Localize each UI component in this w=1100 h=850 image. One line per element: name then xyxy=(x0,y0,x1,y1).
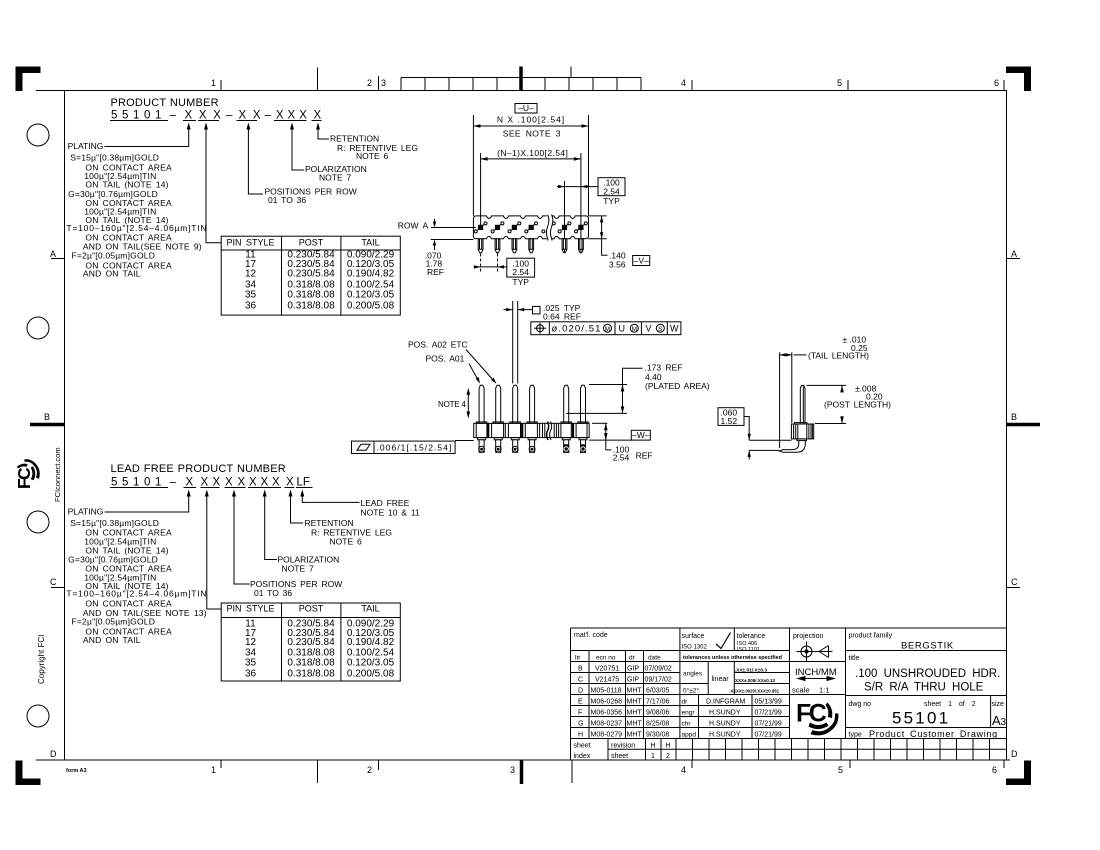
body standoffs xyxy=(478,438,587,440)
top border line full width xyxy=(36,90,1007,92)
side tail xyxy=(779,441,805,453)
svg-text:0.25: 0.25 xyxy=(851,343,868,353)
svg-text:T=100–160µ"[2.54–4.06µm]TIN: T=100–160µ"[2.54–4.06µm]TIN xyxy=(66,589,207,599)
svg-text:index: index xyxy=(574,753,591,760)
registration circle 4 xyxy=(27,705,49,727)
svg-text:Product Customer Drawing: Product Customer Drawing xyxy=(869,729,998,739)
svg-text:NOTE 10 & 11: NOTE 10 & 11 xyxy=(361,508,420,518)
svg-text:36: 36 xyxy=(245,300,257,311)
bottom fold mark left xyxy=(317,760,319,783)
svg-text:INCH/MM: INCH/MM xyxy=(795,667,837,678)
svg-text:H: H xyxy=(666,743,671,750)
svg-text:PLATING: PLATING xyxy=(68,141,104,151)
svg-text:6: 6 xyxy=(994,78,999,88)
svg-text:form A3: form A3 xyxy=(66,768,87,774)
svg-text:9/08/06: 9/08/06 xyxy=(646,710,669,717)
svg-text:LEAD FREE PRODUCT NUMBER: LEAD FREE PRODUCT NUMBER xyxy=(111,463,286,475)
svg-text:AND ON TAIL: AND ON TAIL xyxy=(83,269,141,279)
svg-text:ON CONTACT AREA: ON CONTACT AREA xyxy=(85,598,172,608)
svg-text:2: 2 xyxy=(367,765,372,775)
svg-text:.XXXX±.0020/.XXX±0.051: .XXXX±.0020/.XXX±0.051 xyxy=(729,689,779,694)
lf arrow positions xyxy=(232,490,250,585)
svg-text:0.190/4.82: 0.190/4.82 xyxy=(347,637,395,648)
sheet index rows xyxy=(574,743,671,761)
.140 dim xyxy=(589,216,608,255)
svg-text:1: 1 xyxy=(211,765,216,775)
svg-text:X: X xyxy=(213,477,221,489)
svg-text:9/30/08: 9/30/08 xyxy=(646,732,669,739)
svg-text:D.INFGRAM: D.INFGRAM xyxy=(706,699,745,706)
revision rows xyxy=(578,666,672,739)
svg-text:G: G xyxy=(578,721,583,728)
svg-text:(PLATED AREA): (PLATED AREA) xyxy=(645,381,710,391)
svg-text:.100 UNSHROUDED HDR.: .100 UNSHROUDED HDR. xyxy=(855,668,1000,680)
top view body right part xyxy=(552,216,589,239)
svg-text:1:1: 1:1 xyxy=(819,686,829,695)
svg-text:XX: XX xyxy=(239,110,268,122)
svg-text:PIN STYLE: PIN STYLE xyxy=(226,238,274,248)
svg-text:12: 12 xyxy=(245,269,257,280)
svg-text:0.190/4.82: 0.190/4.82 xyxy=(347,269,395,280)
svg-text:3.56: 3.56 xyxy=(609,260,626,270)
svg-text:XXX: XXX xyxy=(276,110,311,122)
corner crop mark bottom-left xyxy=(16,779,41,786)
svg-text:N X .100[2.54]: N X .100[2.54] xyxy=(497,115,565,125)
svg-text:8/25/08: 8/25/08 xyxy=(646,721,669,728)
svg-text:4: 4 xyxy=(681,765,686,775)
svg-text:X: X xyxy=(249,477,257,489)
front view break xyxy=(547,422,549,441)
svg-text:W: W xyxy=(670,324,679,334)
front view body xyxy=(474,423,590,437)
svg-text:0.120/3.05: 0.120/3.05 xyxy=(347,290,395,301)
bottom centering mark xyxy=(520,760,524,784)
.100 ref dim front xyxy=(592,423,612,450)
pos leader to pin1 xyxy=(469,364,480,384)
body top tabs xyxy=(476,422,588,423)
svg-text:H.SUNDY: H.SUNDY xyxy=(709,732,741,739)
front view posts xyxy=(479,385,585,423)
svg-text:V21475: V21475 xyxy=(595,677,619,684)
svg-text:REF: REF xyxy=(636,450,653,460)
svg-text:ISO 1302: ISO 1302 xyxy=(682,645,708,651)
svg-text:–: – xyxy=(265,110,272,122)
svg-text:S: S xyxy=(658,326,663,333)
svg-text:2.54: 2.54 xyxy=(613,453,630,463)
svg-text:TYP: TYP xyxy=(603,196,620,206)
svg-text:5: 5 xyxy=(838,765,843,775)
svg-text:X: X xyxy=(272,477,280,489)
svg-text:3: 3 xyxy=(381,78,386,88)
svg-text:01 TO 36: 01 TO 36 xyxy=(268,195,306,205)
bottom fold mark right xyxy=(571,760,573,783)
lf arrow polarization xyxy=(263,490,277,560)
svg-text:–W–: –W– xyxy=(632,430,650,440)
svg-text:A: A xyxy=(1011,249,1017,259)
.025 dim arrows xyxy=(504,308,533,311)
registration circle 1 xyxy=(27,124,49,146)
side body xyxy=(791,423,813,441)
side post xyxy=(800,385,805,424)
svg-text:35: 35 xyxy=(245,658,257,669)
svg-text:F: F xyxy=(578,710,582,717)
svg-text:S=15µ"[0.38µm]GOLD: S=15µ"[0.38µm]GOLD xyxy=(70,518,159,528)
svg-text:date: date xyxy=(648,655,661,662)
svg-text:.XXX±.005/.XX±0.13: .XXX±.005/.XX±0.13 xyxy=(734,678,776,683)
svg-text:POST: POST xyxy=(299,238,324,248)
svg-text:S/R R/A THRU HOLE: S/R R/A THRU HOLE xyxy=(864,682,984,694)
svg-text:dwg no: dwg no xyxy=(849,701,872,708)
FCI logo title block xyxy=(796,700,838,736)
views xyxy=(352,103,892,463)
svg-text:E: E xyxy=(578,699,583,706)
sheet frame xyxy=(65,91,1007,761)
top view break lines xyxy=(546,215,548,241)
svg-text:linear: linear xyxy=(712,676,730,683)
svg-text:H: H xyxy=(578,732,583,739)
svg-text:D: D xyxy=(1011,749,1018,759)
.025 square symbol xyxy=(533,306,541,314)
svg-text:NOTE 6: NOTE 6 xyxy=(330,536,362,546)
svg-text:B: B xyxy=(578,666,583,673)
.060 dim xyxy=(744,417,791,460)
svg-text:chr: chr xyxy=(682,721,692,728)
svg-text:C: C xyxy=(1011,577,1018,587)
arrow positions-per-row xyxy=(246,123,263,195)
svg-text:2: 2 xyxy=(666,753,670,760)
svg-text:X: X xyxy=(286,477,294,489)
surface checkmark xyxy=(716,633,731,649)
svg-text:D: D xyxy=(578,688,583,695)
svg-text:C: C xyxy=(578,677,583,684)
svg-text:X: X xyxy=(225,477,233,489)
svg-text:(POST LENGTH): (POST LENGTH) xyxy=(824,399,891,409)
corner crop mark top-right xyxy=(1006,67,1031,74)
svg-text:X: X xyxy=(314,110,322,122)
break partial pad circles xyxy=(542,230,545,233)
top fold mark xyxy=(317,68,319,91)
svg-text:12: 12 xyxy=(245,637,257,648)
svg-text:07/21/99: 07/21/99 xyxy=(755,710,782,717)
.060 box xyxy=(718,408,744,426)
position symbol xyxy=(534,323,546,334)
flatness callout box xyxy=(352,441,456,453)
svg-text:0.120/3.05: 0.120/3.05 xyxy=(347,658,395,669)
note4 double arrow xyxy=(467,388,471,419)
svg-text:6: 6 xyxy=(992,765,997,775)
svg-text:09/17/02: 09/17/02 xyxy=(645,677,672,684)
svg-text:.006/1[.15/2.54]: .006/1[.15/2.54] xyxy=(377,443,453,453)
row A arrow xyxy=(433,219,436,228)
svg-text:B: B xyxy=(44,412,50,422)
.100 typ dim pins 5-6 xyxy=(557,185,598,188)
svg-text:tolerance: tolerance xyxy=(737,633,766,640)
svg-text:sheet 1 of 2: sheet 1 of 2 xyxy=(924,701,976,708)
pin style table lf xyxy=(221,603,400,681)
approval rows xyxy=(682,699,782,739)
arrow polarization xyxy=(290,123,304,171)
svg-text:C: C xyxy=(50,577,57,587)
svg-text:title: title xyxy=(849,655,860,662)
svg-text:ltr: ltr xyxy=(575,655,581,662)
svg-text:–: – xyxy=(226,110,233,122)
.070 dim lines xyxy=(431,228,476,251)
lead free underlines xyxy=(110,487,313,489)
lf arrow retention xyxy=(289,490,304,524)
svg-text:NOTE 7: NOTE 7 xyxy=(282,564,314,574)
projection symbol xyxy=(797,642,833,662)
svg-text:07/21/99: 07/21/99 xyxy=(755,732,782,739)
svg-text:tolerances unless otherwise sp: tolerances unless otherwise specified xyxy=(683,655,782,661)
plating list top xyxy=(66,152,207,278)
svg-text:A: A xyxy=(50,249,56,259)
svg-text:size: size xyxy=(992,701,1005,708)
svg-text:REF: REF xyxy=(427,267,444,277)
svg-text:4: 4 xyxy=(681,78,686,88)
svg-text:B: B xyxy=(1011,412,1017,422)
arrow retention xyxy=(316,123,329,140)
pads top view xyxy=(474,222,587,233)
svg-text:MHT: MHT xyxy=(627,699,643,706)
svg-text:revision: revision xyxy=(611,743,635,750)
pins below body top view xyxy=(478,239,583,253)
svg-text:POST: POST xyxy=(299,603,324,613)
registration circle 2 xyxy=(27,317,49,339)
drawing content xyxy=(66,97,420,681)
svg-text:H.SUNDY: H.SUNDY xyxy=(709,721,741,728)
bottom border line full width xyxy=(36,759,1010,761)
datum V flag xyxy=(633,256,650,266)
svg-text:V: V xyxy=(646,324,652,334)
svg-text:M08-0279: M08-0279 xyxy=(591,732,623,739)
svg-text:AND ON TAIL: AND ON TAIL xyxy=(83,635,141,645)
svg-text:X: X xyxy=(261,477,269,489)
svg-text:0.318/8.08: 0.318/8.08 xyxy=(287,658,335,669)
svg-text:6/03/05: 6/03/05 xyxy=(646,688,669,695)
svg-text:POS. A01: POS. A01 xyxy=(426,354,465,364)
svg-text:–U–: –U– xyxy=(518,103,534,113)
corner crop mark top-left xyxy=(16,67,41,74)
svg-text:U: U xyxy=(619,324,626,334)
svg-text:type: type xyxy=(849,732,862,739)
svg-text:F=2µ"[0.05µm]GOLD: F=2µ"[0.05µm]GOLD xyxy=(72,617,156,627)
svg-text:MHT: MHT xyxy=(627,732,643,739)
svg-text:RETENTION: RETENTION xyxy=(305,518,354,528)
svg-text:sheet: sheet xyxy=(574,743,591,750)
feature control frame xyxy=(531,322,681,335)
svg-text:Copyright FCI: Copyright FCI xyxy=(37,635,46,684)
svg-text:PRODUCT NUMBER: PRODUCT NUMBER xyxy=(111,97,219,109)
svg-text:angles: angles xyxy=(683,671,703,678)
title block grid lines xyxy=(571,628,1007,760)
svg-text:0.318/8.08: 0.318/8.08 xyxy=(287,300,335,311)
svg-text:0.230/5.84: 0.230/5.84 xyxy=(287,637,335,648)
svg-text:LF: LF xyxy=(297,477,310,489)
svg-text:mat'l. code: mat'l. code xyxy=(574,632,608,639)
datum W flag xyxy=(631,430,650,440)
svg-text:35: 35 xyxy=(245,290,257,301)
svg-text:MHT: MHT xyxy=(627,710,643,717)
svg-text:PLATING: PLATING xyxy=(68,507,104,517)
svg-text:5: 5 xyxy=(837,78,842,88)
.100 typ box top xyxy=(598,178,625,196)
svg-text:M: M xyxy=(632,326,637,333)
svg-text:0°±2°: 0°±2° xyxy=(683,687,699,695)
svg-text:07/21/99: 07/21/99 xyxy=(755,721,782,728)
.025 ext lines xyxy=(513,301,518,384)
svg-text:V20751: V20751 xyxy=(595,666,619,673)
top view body left part xyxy=(473,216,546,239)
product number underlines xyxy=(110,120,322,122)
registration circle 3 xyxy=(27,511,49,533)
svg-text:POS. A02 ETC: POS. A02 ETC xyxy=(408,340,468,350)
svg-text:07/09/02: 07/09/02 xyxy=(645,666,672,673)
svg-text:–V–: –V– xyxy=(634,255,649,265)
post length dim xyxy=(807,385,847,423)
svg-text:TYP: TYP xyxy=(512,277,529,287)
svg-text:GIP: GIP xyxy=(627,677,639,684)
svg-text:1: 1 xyxy=(651,753,655,760)
svg-text:0.64 REF: 0.64 REF xyxy=(543,312,581,322)
svg-text:H: H xyxy=(651,743,656,750)
svg-text:LEAD FREE: LEAD FREE xyxy=(361,498,410,508)
svg-text:3: 3 xyxy=(510,765,515,775)
svg-text:36: 36 xyxy=(245,668,257,679)
plating list lf xyxy=(66,518,207,645)
svg-text:H.SUNDY: H.SUNDY xyxy=(709,710,741,717)
dashed extension below pins 1 2 xyxy=(480,254,482,273)
svg-text:.XX±.01/.X±0.3: .XX±.01/.X±0.3 xyxy=(735,668,768,674)
svg-text:NOTE 6: NOTE 6 xyxy=(356,151,388,161)
svg-text:S=15µ"[0.38µm]GOLD: S=15µ"[0.38µm]GOLD xyxy=(70,152,159,162)
lf arrow plating xyxy=(105,490,191,513)
svg-text:SEE NOTE 3: SEE NOTE 3 xyxy=(503,129,561,139)
svg-text:ROW A: ROW A xyxy=(398,221,429,231)
svg-text:0.318/8.08: 0.318/8.08 xyxy=(287,668,335,679)
svg-text:–: – xyxy=(170,477,177,489)
svg-text:product family: product family xyxy=(849,633,893,640)
datum U flag xyxy=(515,104,537,114)
arrow to positions X (from table) xyxy=(204,123,221,243)
svg-text:GIP: GIP xyxy=(627,666,639,673)
svg-text:M06-0268: M06-0268 xyxy=(591,699,623,706)
svg-text:M06-0356: M06-0356 xyxy=(591,710,623,717)
svg-text:0.200/5.08: 0.200/5.08 xyxy=(347,300,395,311)
N dim line xyxy=(473,124,588,128)
pin style table top xyxy=(221,236,400,315)
svg-text:scale: scale xyxy=(792,686,810,695)
svg-text:TAIL: TAIL xyxy=(361,603,379,613)
svg-text:NOTE 4: NOTE 4 xyxy=(438,400,466,409)
svg-text:NOTE 7: NOTE 7 xyxy=(319,172,351,182)
front view tails xyxy=(479,440,586,453)
lf arrow pin style table xyxy=(205,490,221,610)
svg-text:FCIconnect.com: FCIconnect.com xyxy=(53,447,62,502)
svg-text:projection: projection xyxy=(793,633,823,640)
top centering mark xyxy=(519,67,523,91)
svg-text:dr: dr xyxy=(629,655,636,662)
svg-text:55101: 55101 xyxy=(111,110,166,122)
svg-text:F=2µ"[0.05µm]GOLD: F=2µ"[0.05µm]GOLD xyxy=(72,250,156,260)
svg-text:7/17/06: 7/17/06 xyxy=(646,699,669,706)
svg-text:0.200/5.08: 0.200/5.08 xyxy=(347,668,395,679)
corner crop mark bottom-right xyxy=(1006,779,1031,786)
svg-text:D: D xyxy=(50,749,57,759)
lf arrow lead free xyxy=(300,490,359,503)
svg-text:X: X xyxy=(201,477,209,489)
N-1 dim line xyxy=(481,157,581,161)
svg-text:sheet: sheet xyxy=(611,753,628,760)
tail length dim xyxy=(780,352,807,448)
.100 typ box bottom xyxy=(507,258,535,277)
svg-text:M: M xyxy=(605,326,610,333)
svg-text:2.54: 2.54 xyxy=(603,186,620,196)
.100 typ dim pins 1-2 below xyxy=(474,265,507,268)
pos leader to pin2 xyxy=(466,350,497,384)
svg-text:1: 1 xyxy=(211,78,216,88)
svg-text:dr: dr xyxy=(682,699,689,706)
svg-text:01 TO 36: 01 TO 36 xyxy=(254,588,292,598)
svg-text:55101: 55101 xyxy=(111,477,166,489)
svg-text:ecn no: ecn no xyxy=(596,655,616,662)
body ribs xyxy=(476,423,587,437)
svg-text:0.318/8.08: 0.318/8.08 xyxy=(287,290,335,301)
svg-text:appd: appd xyxy=(682,732,697,739)
svg-text:05/13/99: 05/13/99 xyxy=(755,699,782,706)
svg-text:55101: 55101 xyxy=(892,709,950,728)
svg-text:engr: engr xyxy=(682,710,696,717)
svg-text:MHT: MHT xyxy=(627,721,643,728)
.173 plated area dim xyxy=(566,368,642,413)
left margin FCI logo xyxy=(14,459,40,489)
svg-text:0.230/5.84: 0.230/5.84 xyxy=(287,269,335,280)
svg-text:XXX: XXX xyxy=(185,110,228,122)
svg-text:ISO 1101: ISO 1101 xyxy=(737,647,760,653)
arrow to plating X xyxy=(105,123,191,147)
top fold mark right xyxy=(570,67,572,78)
svg-text:PIN STYLE: PIN STYLE xyxy=(226,603,274,613)
svg-text:(N–1)X.100[2.54]: (N–1)X.100[2.54] xyxy=(497,148,568,158)
top scale bar xyxy=(401,78,641,91)
svg-text:X: X xyxy=(238,477,246,489)
svg-text:2.54: 2.54 xyxy=(512,267,529,277)
svg-text:M05-0118: M05-0118 xyxy=(591,688,622,695)
svg-text:1.52: 1.52 xyxy=(721,416,738,426)
svg-text:3: 3 xyxy=(1001,717,1007,728)
svg-text:TAIL: TAIL xyxy=(361,238,379,248)
title block xyxy=(571,628,1007,760)
border zone marks xyxy=(14,67,1040,785)
svg-text:–: – xyxy=(170,110,177,122)
svg-text:surface: surface xyxy=(682,633,705,640)
svg-text:FC: FC xyxy=(14,467,34,489)
seating plane lines front xyxy=(455,439,631,441)
svg-text:MHT: MHT xyxy=(627,688,643,695)
svg-text:M08-0237: M08-0237 xyxy=(591,721,623,728)
svg-text:BERGSTIK: BERGSTIK xyxy=(901,641,954,652)
svg-text:X: X xyxy=(186,477,194,489)
svg-text:ø.020/.51: ø.020/.51 xyxy=(552,324,602,335)
extension lines top view xyxy=(473,115,588,252)
svg-text:2: 2 xyxy=(367,78,372,88)
